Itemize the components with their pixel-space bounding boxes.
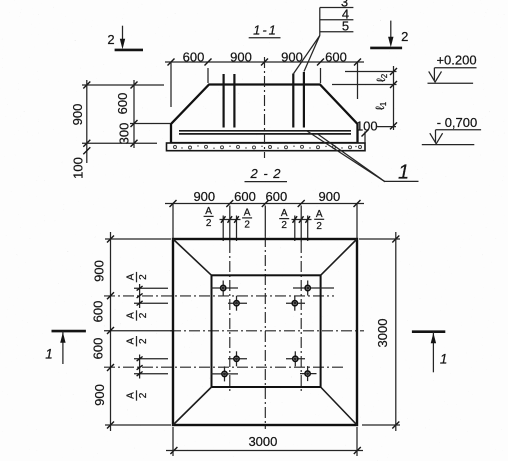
right dim 3000 (359, 232, 400, 431)
section marker 1 (right of plan) (412, 332, 447, 373)
plan centre vertical axis (264, 206, 266, 237)
plan horizontal axis upper (104, 295, 334, 297)
footing outline (section) (171, 85, 358, 144)
left A/2 dims upper group (134, 284, 168, 308)
anchor bolt TR outer (293, 281, 334, 296)
plan horizontal axis lower (104, 366, 345, 368)
corner diagonal bottom-right (321, 387, 357, 425)
A/2 label rotated (125, 272, 149, 282)
extension lines above footing (171, 62, 358, 107)
A/2 label rotated (125, 390, 149, 400)
left dim chain 900/100 (70, 80, 90, 179)
anchor bolt BR inner (286, 351, 305, 366)
extension lines plan top corners (173, 204, 357, 240)
title 2-2 (245, 166, 288, 182)
blinding slab (section) (167, 143, 366, 151)
section marker 2 (top right) (370, 21, 408, 48)
plan vertical axis right bolt column (300, 206, 302, 243)
plan horizontal centre axis (104, 330, 172, 332)
section marker 2 (top left) (107, 26, 143, 50)
right dim chain l1 l2 (332, 66, 397, 130)
top dimension line of section (165, 59, 364, 66)
anchor bolt TL outer (211, 281, 238, 296)
A/2 label (314, 209, 324, 232)
left A/2 dims lower group (134, 355, 168, 379)
corner diagonal bottom-left (173, 387, 212, 425)
A/2 dims top left group (220, 216, 241, 242)
anchor bolts in section (224, 72, 304, 128)
section marker 1 (left of plan) (45, 331, 86, 364)
left outer dim chain 900/600/600/900 (91, 232, 171, 431)
bottom dim 3000 (166, 427, 363, 456)
anchor bolt TL inner (228, 296, 247, 311)
anchor bolt BL outer (211, 366, 238, 381)
A/2 dims top right group (292, 216, 312, 242)
leader lines to pos 1 (307, 131, 419, 184)
A/2 label (242, 207, 252, 230)
A/2 label (279, 208, 289, 231)
corner diagonal top-left (173, 239, 212, 275)
elevation mark +0.200 (428, 53, 477, 84)
A/2 label rotated (125, 336, 149, 346)
A/2 label (204, 206, 214, 229)
inner square (footing top) (212, 275, 321, 387)
left dim chain 600/300 (115, 80, 138, 148)
anchor bolt BR outer (300, 366, 317, 381)
extension lines left of section (82, 85, 170, 143)
anchor bolt BL inner (228, 351, 247, 366)
corner diagonal top-right (321, 239, 357, 275)
mesh reinforcement lines (179, 131, 351, 134)
callout box labels 3 4 5 (320, 0, 354, 36)
top dimension line of plan (165, 200, 364, 207)
dim 100 at right edge of footing (356, 119, 396, 144)
A/2 label rotated (125, 310, 149, 320)
anchor bolt TR inner (286, 296, 305, 311)
plan vertical axis left bolt column (229, 206, 231, 243)
leader lines from callout to rebar tops (294, 36, 320, 74)
elevation mark -0,700 (422, 115, 481, 145)
section centre line (264, 57, 266, 158)
outer square of footing plan (173, 239, 357, 425)
title 1-1 (249, 23, 281, 38)
